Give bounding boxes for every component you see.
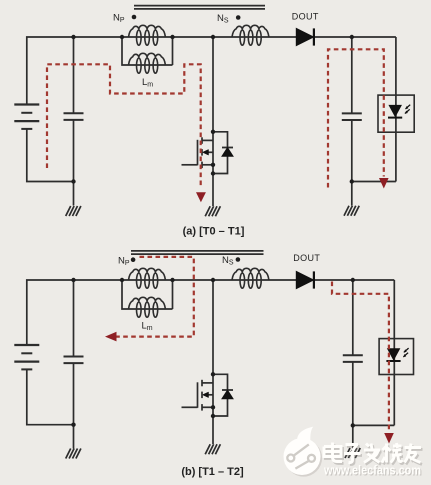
svg-text:DOUT: DOUT [292, 12, 319, 22]
svg-text:www.elecfans.com: www.elecfans.com [323, 464, 421, 478]
svg-text:(a) [T0 – T1]: (a) [T0 – T1] [183, 226, 245, 238]
svg-text:(b) [T1 – T2]: (b) [T1 – T2] [181, 466, 244, 478]
svg-text:Lm: Lm [142, 77, 153, 89]
svg-text:NP: NP [113, 13, 125, 25]
svg-text:NS: NS [222, 255, 234, 267]
svg-text:NP: NP [118, 256, 130, 268]
svg-text:NS: NS [217, 13, 229, 25]
svg-text:Lm: Lm [142, 321, 153, 333]
svg-text:DOUT: DOUT [293, 253, 320, 263]
